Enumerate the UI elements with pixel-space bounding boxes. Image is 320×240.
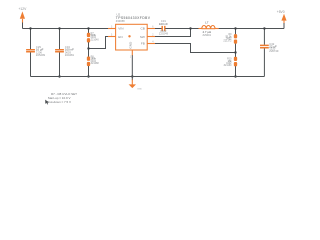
svg-text:GND: GND <box>137 88 142 90</box>
svg-text:+5V0: +5V0 <box>277 10 285 14</box>
svg-text:GND: GND <box>128 41 132 49</box>
wire bottom rail GND net <box>31 76 265 78</box>
pin 3 VIN <box>108 25 116 28</box>
wire EN elbow from divider node <box>89 37 109 49</box>
svg-text:SW: SW <box>140 35 145 39</box>
svg-text:Z20481: Z20481 <box>65 53 75 57</box>
wire SW net <box>155 29 191 37</box>
svg-text:Z34658: Z34658 <box>116 19 125 23</box>
svg-text:+12V: +12V <box>19 7 28 11</box>
capacitor C29 <box>26 29 45 77</box>
node junction EN divider <box>87 47 89 49</box>
wire +5V0 stem <box>283 23 285 29</box>
capacitor C34 <box>55 29 74 77</box>
note UVLO text block <box>46 92 77 104</box>
wire FB net <box>155 44 236 53</box>
node junction C29/top rail <box>29 27 31 29</box>
wire CB net <box>155 28 162 30</box>
wire top rail VIN net <box>23 28 109 30</box>
svg-text:Z29001: Z29001 <box>203 34 212 37</box>
node junction R7/top rail <box>87 27 89 29</box>
power +12V <box>19 7 28 23</box>
svg-text:Z21372: Z21372 <box>223 40 232 43</box>
pin 2 SW <box>147 33 155 36</box>
power +5V0 <box>277 10 287 24</box>
node junction SW/CB/L7 <box>189 27 191 29</box>
svg-text:100 nF: 100 nF <box>159 22 168 26</box>
svg-text:Z25299: Z25299 <box>36 53 46 57</box>
svg-text:VIN: VIN <box>118 27 123 31</box>
wire +12V stem <box>22 23 24 29</box>
wire C31 to SW node <box>165 28 198 30</box>
wire output rail 5V net <box>219 28 284 30</box>
node junction C34/top rail <box>58 27 60 29</box>
svg-text:Shut-down = 7.5 V: Shut-down = 7.5 V <box>46 100 71 104</box>
svg-text:Z21160: Z21160 <box>224 64 233 67</box>
pin 5 EN <box>108 33 116 36</box>
svg-text:L7: L7 <box>205 20 209 24</box>
pin 4 FB <box>147 40 155 43</box>
capacitor C31 bootstrap <box>159 19 169 35</box>
node junction GND/bottom rail <box>131 75 133 77</box>
pin 6 CB <box>147 25 155 28</box>
svg-text:EN: EN <box>118 35 122 39</box>
resistor R7 (UVLO divider top) <box>87 29 100 49</box>
svg-text:CB: CB <box>140 27 144 31</box>
mouse cursor <box>45 100 49 105</box>
node junction output/R9 <box>234 27 236 29</box>
svg-text:FB: FB <box>141 42 145 46</box>
ground <box>129 80 143 91</box>
svg-text:Z21088: Z21088 <box>91 62 100 65</box>
node junction output/C32 <box>263 27 265 29</box>
node junction R8/bottom rail <box>87 75 89 77</box>
op-amp U2 TPS560430XFDBV buck regulator <box>116 13 151 51</box>
svg-text:Z21040: Z21040 <box>91 38 100 41</box>
node junction C34/bottom rail <box>58 75 60 77</box>
resistor R9 (FB divider top) <box>223 29 237 53</box>
svg-text:Z20249: Z20249 <box>159 32 169 36</box>
node junction FB divider <box>234 51 236 53</box>
resistor R10 (FB divider bottom) <box>224 53 238 77</box>
pin 1 GND <box>130 50 132 58</box>
node junction R10/bottom rail <box>234 75 236 77</box>
resistor R8 (UVLO divider bottom) <box>87 49 100 77</box>
inductor L7 <box>199 20 219 37</box>
wire GND pin drop <box>131 55 133 80</box>
svg-text:Z26749: Z26749 <box>269 49 279 53</box>
capacitor C32 output <box>260 29 279 77</box>
